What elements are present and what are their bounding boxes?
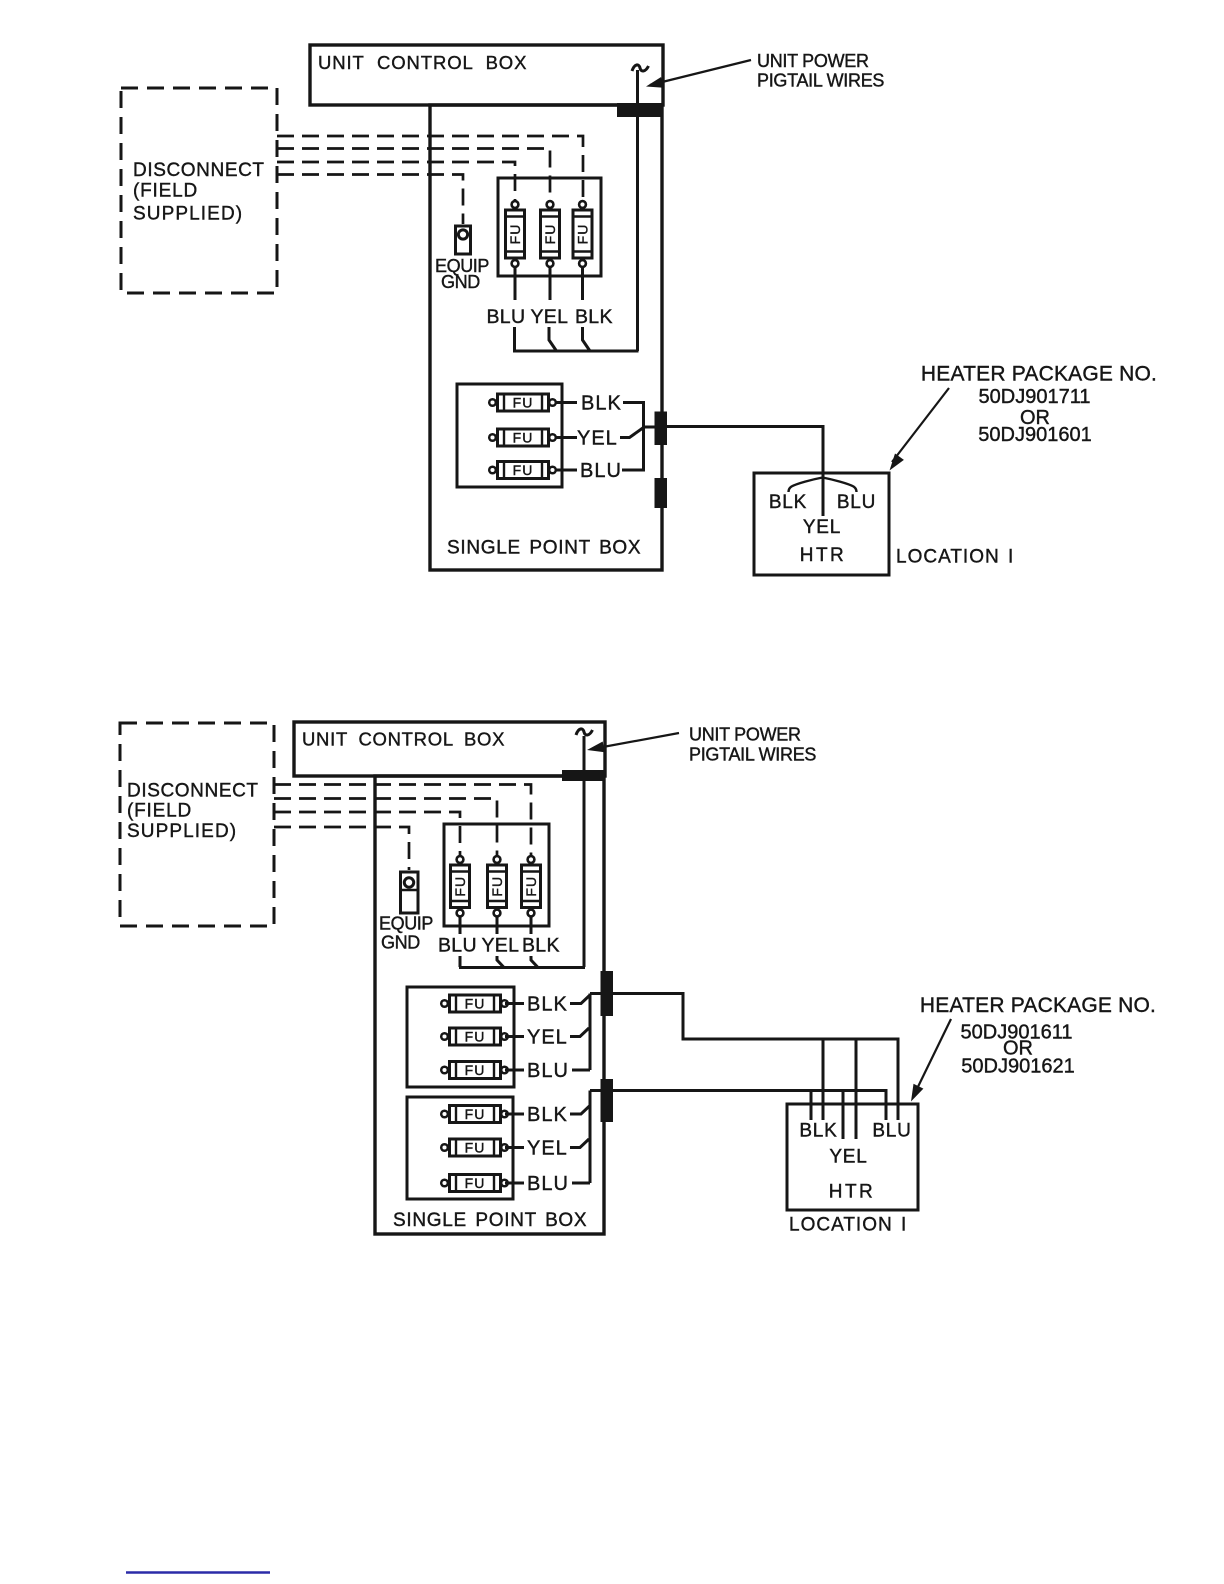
svg-text:YEL: YEL: [803, 517, 841, 538]
callout arrow to heater box (top): [892, 388, 949, 462]
equip gnd terminal (top): [456, 226, 471, 254]
fuse FU blu (lower block): [451, 856, 470, 916]
unit control box (top): [310, 45, 663, 105]
svg-text:BLK: BLK: [581, 393, 622, 415]
callout arrow to pigtail wires (lower): [592, 733, 679, 749]
svg-text:SUPPLIED): SUPPLIED): [133, 204, 243, 225]
unit power pigtail wire (lower): [583, 736, 586, 967]
pigtail bus wire (top): [513, 350, 639, 353]
dashed wire disconnect to equip gnd (top): [277, 175, 463, 225]
junction bar on unit control box (top): [617, 103, 662, 117]
wire YEL below label with jog (top): [549, 327, 557, 351]
svg-text:PIGTAIL WIRES: PIGTAIL WIRES: [689, 745, 816, 765]
wire YEL below label with jog (lower): [497, 956, 504, 968]
fuse FU blu row (panel2): [441, 1175, 508, 1192]
fuse FU blk row (top panel): [489, 394, 556, 411]
svg-text:LOCATION I: LOCATION I: [789, 1215, 907, 1236]
svg-text:BLK: BLK: [575, 306, 613, 328]
heater box HTR (top): [754, 473, 889, 575]
fuse FU blk (lower block): [522, 856, 541, 916]
wire BLU fuse to label (panel2): [505, 1182, 524, 1185]
svg-text:YEL: YEL: [527, 1138, 568, 1160]
svg-text:GND: GND: [381, 933, 420, 953]
svg-text:BLU: BLU: [487, 306, 526, 328]
svg-text:YEL: YEL: [829, 1147, 867, 1168]
wire BLK below label with jog (lower): [531, 956, 538, 968]
fuse FU blu (top block): [506, 201, 525, 267]
svg-text:DISCONNECT: DISCONNECT: [127, 781, 259, 802]
svg-text:BLK: BLK: [522, 935, 560, 957]
heater wire fork stem (top): [822, 473, 825, 516]
wire BLU fuse to label (top panel): [555, 469, 577, 472]
junction bar B (lower): [601, 1079, 614, 1122]
wire BLK fuse pigtail (top): [581, 268, 584, 301]
collector wire (panel1): [589, 994, 592, 1071]
disconnect box (top): [121, 88, 277, 293]
heater box HTR (lower): [787, 1104, 918, 1210]
wire YEL fuse pigtail (lower): [496, 917, 499, 934]
junction bar A (lower): [601, 971, 614, 1016]
wire BLK to junction (top): [623, 403, 655, 428]
svg-text:UNIT POWER: UNIT POWER: [689, 725, 801, 745]
svg-text:BLK: BLK: [527, 994, 568, 1016]
heater fork right branch (top): [823, 478, 857, 493]
single point fuse panel (top): [457, 384, 562, 487]
svg-text:BLU: BLU: [580, 460, 622, 482]
fuse FU blk row (panel2): [441, 1106, 508, 1123]
wire YEL fuse to label (panel2): [505, 1146, 524, 1149]
svg-text:BLK: BLK: [527, 1104, 568, 1126]
heater drop BLK1 from wire2 (lower): [810, 1091, 813, 1121]
svg-text:BLU: BLU: [837, 492, 876, 513]
wire BLU below label (lower): [459, 956, 462, 967]
dashed wire disconnect to BLU fuse (top): [277, 162, 515, 200]
svg-text:BLU: BLU: [527, 1060, 569, 1082]
unit power pigtail squiggle (lower): [576, 729, 593, 735]
fuse panel 2 (lower): [407, 1097, 513, 1199]
junction bar on unit control box (lower): [562, 770, 605, 781]
wire BLU below label (top): [513, 327, 516, 351]
callout arrow to heater box (lower): [913, 1019, 951, 1097]
svg-text:FU: FU: [489, 876, 505, 897]
svg-text:BLU: BLU: [527, 1173, 569, 1195]
wire BLK fuse to label (panel2): [505, 1113, 524, 1116]
fuse FU blk (top block): [573, 201, 592, 267]
svg-text:FU: FU: [465, 996, 486, 1012]
svg-text:SINGLE POINT BOX: SINGLE POINT BOX: [447, 538, 641, 559]
heater fork left branch (top): [789, 478, 823, 493]
wire BLU fuse to label (panel1): [505, 1069, 524, 1072]
wire BLU fuse pigtail (lower): [459, 917, 462, 934]
wire BLU to collector (panel1): [572, 1069, 590, 1072]
equip gnd terminal (lower): [401, 872, 419, 913]
svg-text:YEL: YEL: [531, 306, 569, 328]
svg-text:FU: FU: [513, 395, 534, 411]
dashed wire disconnect to BLK fuse (lower): [274, 785, 531, 856]
wire YEL jog to collector (panel1): [570, 1028, 589, 1037]
fuse FU yel row (panel2): [441, 1139, 508, 1156]
fuse FU yel (lower block): [488, 856, 507, 916]
single point box (lower): [375, 776, 604, 1234]
fuse panel 1 (lower): [407, 987, 514, 1087]
heater drop BLK2 from wire1 (lower): [822, 1039, 825, 1120]
svg-text:LOCATION I: LOCATION I: [896, 547, 1014, 568]
wire panel1 to heater (lower): [590, 994, 898, 1121]
svg-text:FU: FU: [513, 462, 534, 478]
svg-text:FU: FU: [465, 1029, 486, 1045]
svg-text:FU: FU: [542, 224, 558, 245]
wire YEL fuse to label (panel1): [505, 1035, 524, 1038]
svg-text:EQUIP: EQUIP: [379, 914, 433, 934]
svg-text:50DJ901711: 50DJ901711: [979, 386, 1091, 408]
svg-text:BLU: BLU: [872, 1121, 911, 1142]
heater drop YEL2 from wire1 (lower): [855, 1039, 858, 1139]
svg-text:FU: FU: [523, 876, 539, 897]
blue footer rule: [126, 1571, 270, 1574]
svg-text:HTR: HTR: [829, 1182, 876, 1203]
svg-text:YEL: YEL: [527, 1027, 568, 1049]
wire BLU to collector (panel2): [572, 1182, 590, 1185]
svg-text:HEATER PACKAGE NO.: HEATER PACKAGE NO.: [920, 994, 1156, 1017]
heater drop YEL1 from wire2 (lower): [842, 1091, 845, 1140]
callout arrow to pigtail wires (top): [650, 60, 751, 85]
svg-text:SUPPLIED): SUPPLIED): [127, 821, 237, 842]
svg-text:50DJ901601: 50DJ901601: [978, 424, 1091, 446]
fuse FU blu row (top panel): [489, 462, 556, 479]
svg-text:UNIT CONTROL BOX: UNIT CONTROL BOX: [318, 52, 527, 73]
svg-text:YEL: YEL: [577, 428, 618, 450]
wire panel2 to heater (lower): [590, 1091, 886, 1121]
svg-text:BLK: BLK: [799, 1121, 837, 1142]
fuse block box (top): [498, 178, 601, 276]
fuse FU yel (top block): [541, 201, 560, 267]
svg-text:GND: GND: [441, 272, 480, 292]
fuse FU blu row (panel1): [441, 1062, 508, 1079]
wire BLU to junction (top): [622, 427, 644, 470]
unit power pigtail squiggle (top): [632, 65, 649, 71]
wire junction to heater (top): [667, 427, 823, 474]
svg-text:FU: FU: [465, 1175, 486, 1191]
svg-text:BLU: BLU: [438, 935, 477, 957]
fuse FU yel row (panel1): [441, 1028, 508, 1045]
unit power pigtail wire (top): [636, 70, 639, 351]
wire YEL fuse pigtail (top): [549, 268, 552, 301]
svg-text:(FIELD: (FIELD: [127, 801, 192, 822]
svg-text:UNIT POWER: UNIT POWER: [757, 51, 869, 71]
fuse FU blk row (panel1): [441, 995, 508, 1012]
svg-text:FU: FU: [452, 876, 468, 897]
svg-text:FU: FU: [465, 1106, 486, 1122]
single point box (top): [430, 105, 662, 570]
svg-text:HTR: HTR: [800, 545, 847, 566]
dashed wire disconnect to equip gnd (lower): [274, 827, 409, 870]
svg-text:UNIT CONTROL BOX: UNIT CONTROL BOX: [302, 729, 505, 750]
dashed wire disconnect to BLK fuse (top): [277, 136, 583, 200]
wire YEL jog to collector (panel2): [570, 1139, 589, 1148]
wire BLK jog to collector (panel1): [570, 995, 590, 1004]
svg-text:FU: FU: [465, 1140, 486, 1156]
unit control box (lower): [294, 722, 605, 776]
wire YEL fuse to label (top panel): [555, 436, 577, 439]
svg-text:(FIELD: (FIELD: [133, 181, 198, 202]
svg-text:FU: FU: [575, 224, 591, 245]
wire BLK jog to collector (panel2): [570, 1106, 590, 1115]
wire BLK fuse to label (top panel): [555, 401, 577, 404]
collector wire (panel2): [589, 1091, 592, 1184]
svg-text:FU: FU: [507, 224, 523, 245]
fuse block box (lower): [444, 824, 549, 926]
svg-text:SINGLE POINT BOX: SINGLE POINT BOX: [393, 1210, 587, 1231]
svg-text:BLK: BLK: [769, 492, 807, 513]
dashed wire disconnect to YEL fuse (lower): [274, 799, 497, 856]
svg-text:FU: FU: [465, 1062, 486, 1078]
wire BLK below label with jog (top): [583, 327, 591, 351]
wire YEL to junction (top): [620, 428, 644, 438]
svg-text:50DJ901621: 50DJ901621: [961, 1056, 1074, 1078]
svg-text:HEATER PACKAGE NO.: HEATER PACKAGE NO.: [921, 363, 1157, 386]
svg-text:PIGTAIL WIRES: PIGTAIL WIRES: [757, 71, 884, 91]
pigtail bus wire (lower): [459, 966, 585, 969]
wire BLU fuse pigtail (top): [514, 268, 517, 301]
junction bar 2 (top): [655, 478, 668, 508]
svg-text:YEL: YEL: [482, 935, 520, 957]
svg-text:FU: FU: [513, 430, 534, 446]
wire BLK fuse to label (panel1): [505, 1002, 524, 1005]
junction bar 1 (top): [655, 412, 668, 446]
dashed wire disconnect to BLU fuse (lower): [274, 812, 460, 855]
dashed wire disconnect to YEL fuse (top): [277, 149, 550, 201]
disconnect box (lower): [120, 723, 274, 926]
fuse FU yel row (top panel): [489, 429, 556, 446]
svg-text:DISCONNECT: DISCONNECT: [133, 160, 265, 181]
wire BLK fuse pigtail (lower): [530, 917, 533, 934]
